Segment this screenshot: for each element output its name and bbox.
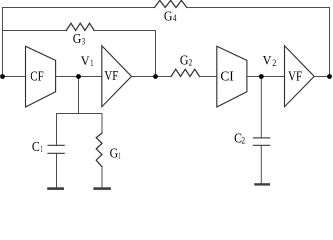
wire left rail [2,8,4,77]
wire C1 bottom lead [56,153,58,187]
resistor G3 [66,23,94,30]
svg-text:2: 2 [241,136,245,146]
svg-text:VF: VF [288,69,302,84]
svg-text:G: G [110,146,119,161]
svg-text:G: G [73,31,82,46]
block CF (current follower) [26,46,56,107]
node input junction [0,74,5,79]
wire input lead to CF [3,76,26,78]
resistor G4 [154,0,186,7]
wire V2 drop [260,77,262,138]
wire CI output to VF input through node V2 [247,76,285,78]
wire top feedback rail right segment [187,7,330,9]
wire V1 drop [78,77,80,114]
wire G3 drop to node [155,31,157,77]
wire right rail [329,8,331,77]
svg-text:V: V [263,53,272,68]
node output junction [327,74,332,79]
op-amp buffer VF (second voltage follower) [285,46,315,107]
svg-text:1: 1 [90,58,93,68]
wire VF output to G2 [132,76,172,78]
svg-text:CI: CI [220,69,234,84]
svg-text:CF: CF [30,69,44,84]
block CI (current inverter) [217,46,247,107]
node V1 junction [76,74,81,79]
svg-text:G: G [180,53,189,68]
svg-text:4: 4 [173,13,177,23]
svg-text:VF: VF [104,69,118,84]
capacitor C1 [48,145,64,153]
svg-text:2: 2 [189,58,193,68]
wire C2 bottom lead [260,145,262,183]
svg-text:G: G [164,8,173,23]
node after VF1 junction [153,74,158,79]
node V2 junction [259,74,264,79]
wire VF2 output to right rail [314,76,329,78]
svg-text:2: 2 [272,58,276,68]
svg-text:V: V [81,53,90,68]
svg-text:C: C [32,139,40,154]
svg-text:1: 1 [41,144,43,154]
wire G1 bottom lead [101,167,103,188]
wire G3 rail right segment [94,30,155,32]
wire G3 rail left segment [3,30,67,32]
wire G1 top lead [101,114,103,134]
ground under C1 [47,187,64,190]
svg-text:1: 1 [119,151,121,161]
resistor G2 [171,69,200,76]
op-amp buffer VF (first voltage follower) [102,46,132,107]
wire C1 top lead [56,114,58,146]
resistor G1 [96,133,102,167]
ground under C2 [254,183,270,185]
capacitor C2 [254,138,270,146]
wire branch horizontal C1-G1 [57,113,103,115]
ground under G1 [93,187,111,190]
svg-text:3: 3 [82,37,86,47]
wire top feedback rail left segment [3,7,155,9]
wire CF output to VF input through node V1 [56,76,102,78]
wire G2 to CI [200,76,217,78]
